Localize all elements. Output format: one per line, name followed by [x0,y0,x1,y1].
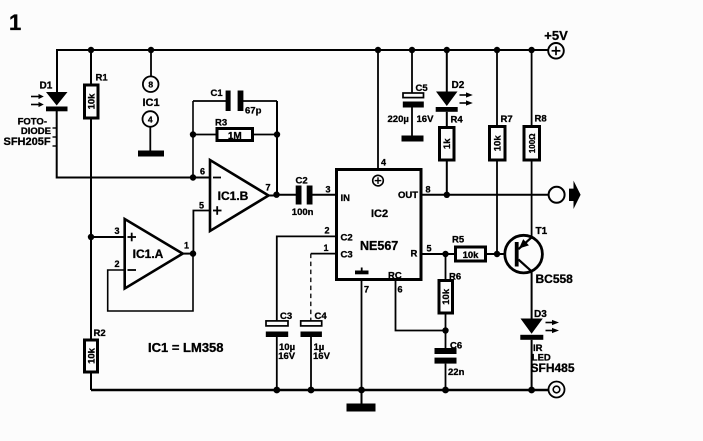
svg-text:1M: 1M [228,131,242,142]
node pin3/R1R2 column [88,234,94,240]
wire IC2 pin1 to C4 [311,253,337,255]
svg-text:IC1: IC1 [142,97,159,109]
svg-text:5: 5 [199,201,204,211]
svg-text:10k: 10k [463,250,480,261]
svg-text:OUT: OUT [398,190,418,201]
node rail-pin7 [358,387,365,394]
svg-text:1: 1 [9,10,21,35]
capacitor C1 [211,88,262,117]
svg-text:3: 3 [326,184,331,194]
svg-text:C3: C3 [341,249,353,260]
capacitor C4 [301,311,331,390]
wire pin6 input line [57,177,210,179]
wire left drop from rail to D1 [56,49,58,92]
svg-text:BC558: BC558 [536,272,574,286]
capacitor C2 [277,176,336,218]
resistor R3 [193,118,277,142]
wire T1 collector down [531,271,533,320]
svg-text:D2: D2 [452,80,465,91]
node rail-C6 [442,387,449,394]
op-amp IC1.B [199,160,271,231]
wire IC2 pin7 to ground rail [361,279,363,390]
wire feedback right vertical [276,101,278,195]
svg-text:1: 1 [324,243,329,253]
svg-text:6: 6 [200,167,205,177]
capacitor C5 [388,50,435,136]
svg-text:+5V: +5V [544,28,568,43]
svg-text:NE567: NE567 [360,239,398,253]
svg-text:10k: 10k [87,347,98,364]
svg-text:2: 2 [325,226,330,236]
svg-text:R: R [411,249,418,260]
svg-text:7: 7 [266,183,271,193]
svg-text:SFH205F: SFH205F [4,136,51,148]
svg-text:67p: 67p [245,106,262,117]
ground bar under IC1 [138,151,164,157]
svg-text:R4: R4 [451,114,464,125]
svg-text:100Ω: 100Ω [528,133,537,153]
node R3 left [190,131,196,137]
wire R1 bottom to node A [90,118,92,237]
photodiode D1 [31,81,68,112]
svg-text:4: 4 [381,158,386,168]
svg-text:IC1.A: IC1.A [133,247,164,261]
svg-text:2: 2 [114,259,119,269]
svg-text:3: 3 [114,226,119,236]
svg-text:C2: C2 [341,233,353,244]
svg-text:10k: 10k [441,288,452,305]
node rail-D3 [528,387,535,394]
node R6/C6/RC [442,327,448,333]
wire R7 down to base line [496,160,498,254]
svg-text:C2: C2 [296,176,308,187]
wire node A down to R2 [90,237,92,340]
svg-text:R7: R7 [501,114,513,125]
svg-text:R5: R5 [452,235,465,246]
label IR LED SFH485 [531,343,575,375]
svg-text:4: 4 [148,114,153,124]
LED D2 [436,50,473,128]
wire feedback top to C1 [193,100,226,102]
terminal output [549,187,565,203]
resistor R2 [85,328,106,372]
node junction rail-pin4 [375,47,381,53]
wire R4 to OUT line [446,160,448,195]
svg-text:IN: IN [341,193,351,204]
svg-text:D1: D1 [40,81,53,92]
node OUT/R4 [444,192,450,198]
node feedback/pin6 [190,174,196,180]
node junction rail-D2 [444,47,450,53]
wire feedback left vertical [192,101,194,178]
svg-text:7: 7 [364,284,369,294]
terminal ground 0 [549,382,565,398]
resistor R6 [439,254,461,331]
svg-text:R8: R8 [535,114,547,125]
node junction rail-R8 [528,47,534,53]
IC2 NE567 box [337,170,422,282]
svg-text:1: 1 [184,241,189,251]
svg-text:SFH485: SFH485 [531,361,575,375]
svg-text:D3: D3 [534,309,547,320]
svg-text:8: 8 [148,80,153,90]
resistor R5 [452,235,515,261]
output arrow [569,181,581,209]
label FOTO-DIODE SFH205F [4,117,57,149]
wire pin5 from IC1.A output [193,211,210,254]
svg-text:8: 8 [426,184,431,194]
wire IC1.A feedback loop [108,254,193,311]
capacitor C3 [266,311,296,390]
ground bar under C5 [402,136,424,142]
resistor R8 [524,50,547,160]
wire IC2 pin6 RC to R6/C6 node [396,279,446,331]
wire D3 to bottom rail [531,340,533,390]
svg-text:1k: 1k [442,138,453,149]
svg-text:R1: R1 [96,73,109,84]
capacitor C6 [435,331,465,391]
node junction rail-IC1 [148,47,154,53]
wire IC1.A output [180,253,193,255]
terminal +5V [544,28,568,59]
wire bottom ground rail [91,389,549,392]
svg-text:6: 6 [398,284,403,294]
wire IC2 pin5 R lead [421,253,456,255]
svg-text:R2: R2 [94,328,106,339]
wire OUT line pin8 [421,194,549,196]
wire pin3 input [91,236,125,238]
resistor R7 [490,50,513,160]
wire IC2 pin2 to C3 [277,236,337,321]
transistor T1 [505,226,573,286]
svg-text:IC2: IC2 [371,208,388,220]
svg-text:16V: 16V [417,114,435,125]
wire pin4 to rail [377,50,379,169]
node IC1.A output [190,250,196,256]
wire +5V top rail [57,49,548,51]
node junction rail-R7 [494,47,500,53]
svg-text:100n: 100n [292,207,314,218]
resistor R1 [85,50,109,118]
svg-text:16V: 16V [313,351,331,362]
svg-text:T1: T1 [536,226,548,237]
svg-text:R3: R3 [215,118,227,129]
LED D3 [520,309,559,340]
svg-text:16V: 16V [278,351,296,362]
wire D1 cathode down [56,111,58,179]
node rail-C4 [308,387,315,394]
node base/R7 [494,251,500,257]
svg-text:220µ: 220µ [388,114,409,125]
op-amp IC1.A [114,219,189,289]
node R3 right [274,131,280,137]
svg-text:IC1 = LM358: IC1 = LM358 [148,340,224,355]
node R5/R6 [442,251,448,257]
node junction rail-C5 [409,47,415,53]
IC1 power pins symbol [142,50,159,151]
svg-text:IC1.B: IC1.B [218,189,249,203]
svg-text:10k: 10k [87,93,98,110]
svg-text:10k: 10k [493,135,504,152]
wire IC1.B output to node [266,195,277,197]
node junction rail-R1 [88,47,94,53]
wire R8 down to T1 emitter [531,160,533,238]
resistor R4 [440,114,464,160]
wire R2 to bottom rail [90,372,92,390]
svg-text:22n: 22n [448,367,465,378]
svg-text:5: 5 [427,243,432,253]
svg-text:C1: C1 [211,88,224,99]
node IC1.B output [273,192,279,198]
node rail-C3 [273,387,280,394]
ground symbol bottom [347,390,376,412]
wire dashed drop pin1 to C4 [310,254,312,322]
